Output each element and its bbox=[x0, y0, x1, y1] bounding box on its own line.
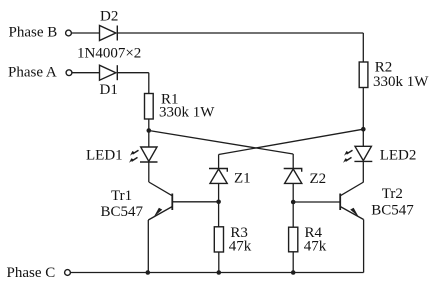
svg-text:Phase C: Phase C bbox=[7, 265, 56, 281]
svg-text:330k 1W: 330k 1W bbox=[373, 74, 429, 90]
svg-text:BC547: BC547 bbox=[101, 204, 144, 220]
svg-text:Phase B: Phase B bbox=[9, 25, 58, 41]
svg-text:D1: D1 bbox=[100, 82, 118, 98]
svg-text:1N4007×2: 1N4007×2 bbox=[77, 46, 141, 62]
svg-text:Tr2: Tr2 bbox=[382, 186, 403, 202]
svg-text:LED1: LED1 bbox=[86, 148, 123, 164]
svg-text:BC547: BC547 bbox=[371, 203, 414, 219]
svg-text:LED2: LED2 bbox=[380, 148, 417, 164]
svg-text:Z2: Z2 bbox=[310, 171, 327, 187]
svg-text:Tr1: Tr1 bbox=[111, 188, 132, 204]
svg-text:Z1: Z1 bbox=[234, 171, 251, 187]
svg-text:47k: 47k bbox=[229, 239, 252, 255]
svg-text:47k: 47k bbox=[304, 239, 327, 255]
svg-text:330k 1W: 330k 1W bbox=[159, 105, 215, 121]
svg-text:D2: D2 bbox=[100, 9, 118, 25]
svg-text:Phase A: Phase A bbox=[8, 65, 57, 81]
